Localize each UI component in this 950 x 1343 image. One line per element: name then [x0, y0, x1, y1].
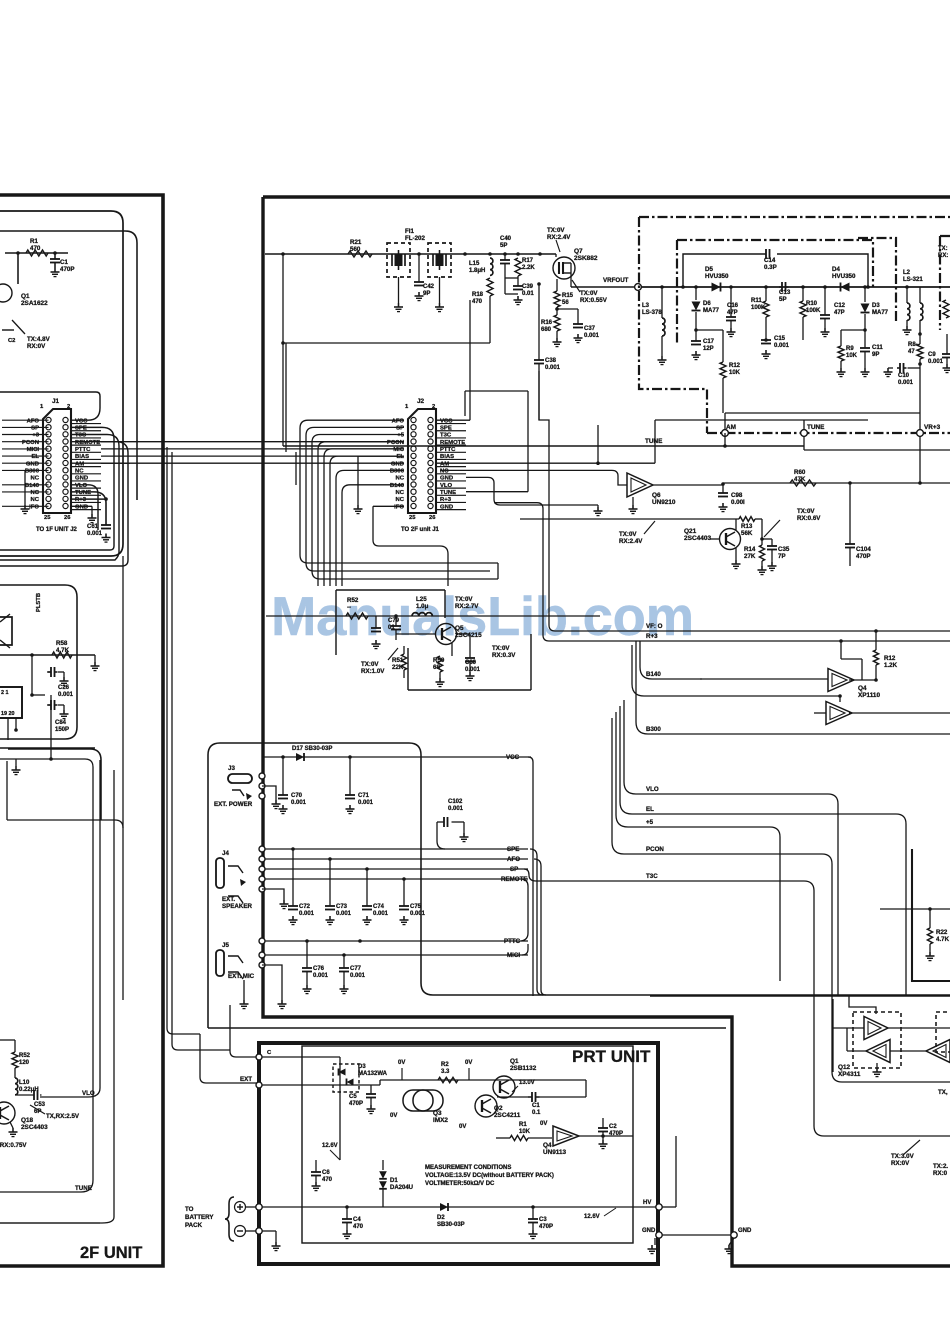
svg-text:XP1110: XP1110	[858, 692, 880, 699]
wire q21 base	[710, 538, 719, 540]
svg-text:120: 120	[19, 1060, 30, 1066]
resistor R15	[556, 279, 558, 291]
svg-text:AFO: AFO	[27, 418, 40, 424]
pin J1 row 9 left	[46, 475, 51, 480]
svg-text:2SC4403: 2SC4403	[684, 535, 711, 542]
svg-text:5P: 5P	[500, 243, 507, 249]
svg-text:1.0μ: 1.0μ	[416, 603, 429, 610]
wire pin underline	[71, 430, 101, 432]
pin J1 row 3 right	[63, 432, 68, 437]
wires J1 right side loops	[0, 392, 100, 420]
svg-text:RX:0.3V: RX:0.3V	[492, 652, 516, 659]
pin J2 row 13 left	[411, 503, 416, 508]
pin J1 row 1 left	[46, 417, 51, 422]
pin J1 row 13 right	[63, 503, 68, 508]
wire long y996	[650, 995, 950, 997]
wire J1 VLO row	[71, 485, 98, 530]
svg-text:Q1: Q1	[510, 1058, 519, 1065]
svg-text:0.001: 0.001	[584, 333, 600, 339]
wire gnd link	[662, 1234, 731, 1236]
svg-text:470: 470	[472, 299, 483, 305]
svg-text:0.001: 0.001	[545, 365, 561, 371]
wire sub box top	[880, 908, 950, 910]
svg-text:L15: L15	[469, 261, 480, 267]
wire J1 AM row to right	[71, 462, 130, 464]
svg-text:560: 560	[350, 246, 361, 253]
ic chip left partial	[0, 687, 22, 718]
svg-text:VOLTAGE:13.5V DC(without BATTE: VOLTAGE:13.5V DC(without BATTERY PACK)	[425, 1173, 554, 1179]
svg-text:RX:2.4V: RX:2.4V	[547, 234, 571, 241]
ground J2 left	[357, 456, 359, 505]
svg-text:47P: 47P	[727, 310, 738, 316]
svg-text:TO 1F UNIT J2: TO 1F UNIT J2	[36, 527, 78, 533]
wire Q5 loop bottom	[408, 689, 531, 691]
svg-text:T3C: T3C	[646, 873, 658, 880]
wire Q5 loop bottom left	[407, 648, 409, 690]
transistor Q3 IMX2	[403, 1090, 433, 1111]
svg-text:2F UNIT: 2F UNIT	[80, 1244, 142, 1262]
wire q5 base	[396, 633, 435, 635]
svg-text:470P: 470P	[349, 1101, 363, 1107]
wire Q5 loop left	[335, 590, 337, 655]
svg-text:RX:1.0V: RX:1.0V	[361, 668, 385, 675]
svg-text:0V: 0V	[398, 1060, 405, 1066]
svg-text:SP: SP	[31, 425, 39, 431]
pin J2 row 2 left	[411, 425, 416, 430]
wire q5 rail	[266, 615, 600, 617]
svg-text:R52: R52	[19, 1053, 31, 1059]
wire ext rail	[262, 1084, 380, 1086]
wire J2 bundle 7	[336, 470, 404, 586]
svg-text:C102: C102	[448, 799, 463, 805]
svg-text:0.001: 0.001	[291, 800, 307, 806]
svg-text:4.7K: 4.7K	[56, 647, 70, 654]
dash-dot RF enclosure outer	[639, 217, 950, 433]
svg-text:R17: R17	[522, 258, 534, 264]
svg-text:2SK882: 2SK882	[574, 255, 598, 262]
wire j2 ifo down	[373, 506, 448, 586]
wire q21 emitter gnd	[735, 548, 737, 560]
svg-text:C80: C80	[465, 660, 477, 666]
svg-text:B300: B300	[390, 468, 405, 474]
wire MICI hook up	[522, 944, 528, 955]
wire gap vertical 1	[167, 447, 200, 1034]
pin J2 row 12 left	[411, 496, 416, 501]
svg-text:C4: C4	[353, 1217, 361, 1223]
svg-text:1.8μH: 1.8μH	[469, 268, 485, 274]
svg-text:C98: C98	[731, 492, 743, 499]
svg-text:VOLTMETER:50kΩ/V DC: VOLTMETER:50kΩ/V DC	[425, 1181, 495, 1187]
svg-text:MA77: MA77	[872, 310, 889, 316]
svg-text:HVU350: HVU350	[705, 273, 729, 280]
wire REMOTE hook down	[521, 879, 528, 941]
wire J2 IFO	[373, 505, 404, 507]
wire J2 bundle 3	[312, 435, 498, 580]
svg-text:TX:0V: TX:0V	[492, 645, 510, 652]
wire J2 bundle 8	[342, 485, 404, 586]
diode D1	[382, 1160, 384, 1170]
wire x123 down	[122, 556, 124, 1000]
svg-text:C79: C79	[388, 618, 400, 624]
wire c26 tap	[31, 655, 33, 695]
svg-text:J5: J5	[222, 942, 229, 949]
svg-text:NC: NC	[30, 490, 39, 496]
node GND left	[656, 1232, 662, 1238]
pin J2 row 8 right	[428, 468, 433, 473]
svg-text:R12: R12	[729, 363, 741, 369]
svg-text:470: 470	[30, 245, 41, 252]
wires J1 left stubs	[2, 419, 49, 421]
pin J1 row 6 left	[46, 453, 51, 458]
pin J1 row 5 right	[63, 446, 68, 451]
wire gap vertical 2	[172, 452, 230, 1050]
svg-text:L3: L3	[642, 303, 650, 309]
svg-text:TX:4.8V: TX:4.8V	[27, 336, 51, 343]
buffer Q4b	[826, 702, 852, 725]
svg-text:D6: D6	[703, 301, 711, 307]
svg-text:--: --	[347, 604, 351, 611]
node GND right	[731, 1232, 737, 1238]
svg-text:C84: C84	[55, 720, 67, 726]
svg-text:0V: 0V	[465, 1060, 472, 1066]
wire pin underline	[436, 501, 466, 503]
capacitor C61	[105, 499, 107, 525]
svg-text:0.3P: 0.3P	[764, 264, 777, 271]
pin J2 row 6 left	[411, 453, 416, 458]
pin J1 row 8 right	[63, 468, 68, 473]
wire r+3 jog to q4a out	[839, 639, 843, 643]
svg-text:TO: TO	[185, 1206, 194, 1213]
wire J2 right verticals up	[464, 391, 466, 416]
svg-text:R22: R22	[936, 929, 948, 936]
svg-text:NC: NC	[395, 497, 404, 503]
svg-text:B300: B300	[25, 468, 40, 474]
wire pin underline	[436, 487, 466, 489]
capacitor C104	[849, 483, 851, 544]
node VR+3	[917, 430, 924, 437]
svg-text:Q4: Q4	[858, 685, 867, 692]
wire mid box bottom	[7, 820, 123, 828]
pin J2 row 7 left	[411, 460, 416, 465]
svg-text:C3: C3	[539, 1217, 547, 1223]
svg-text:NC: NC	[30, 476, 39, 482]
wire Q5 loop top	[336, 589, 445, 591]
brace battery	[225, 1197, 234, 1241]
wire x114 down	[113, 770, 115, 1217]
svg-text:0.001: 0.001	[898, 380, 914, 386]
wire q21 collector up	[735, 519, 737, 530]
capacitor C77	[342, 953, 346, 957]
svg-text:RX:0.55V: RX:0.55V	[580, 297, 608, 304]
capacitor C80	[469, 650, 471, 658]
pin J2 row 10 right	[428, 482, 433, 487]
transistor Q2 prt	[475, 1095, 497, 1117]
capacitor C37	[555, 307, 559, 311]
wire battery minus	[246, 1230, 256, 1232]
wire d6 c17 tap	[694, 328, 698, 332]
capacitor C3	[532, 1207, 534, 1219]
capacitor C1	[53, 251, 57, 255]
svg-text:AFO: AFO	[392, 418, 405, 424]
wire q4a out	[849, 679, 876, 681]
wire R13 line	[520, 518, 739, 520]
node HV	[656, 1204, 662, 1210]
svg-text:12.6V: 12.6V	[322, 1143, 338, 1149]
svg-text:SPE: SPE	[507, 846, 519, 853]
right sub box	[912, 849, 950, 981]
svg-text:C73: C73	[336, 904, 348, 910]
svg-text:0.00I: 0.00I	[731, 499, 745, 506]
buffer Q4 prt	[553, 1126, 579, 1146]
svg-text:C104: C104	[856, 546, 871, 553]
svg-text:100K: 100K	[806, 308, 821, 314]
svg-text:TUNE: TUNE	[75, 1185, 92, 1192]
pin J1 row 12 right	[63, 496, 68, 501]
wire J2 bundle 4	[318, 442, 404, 586]
svg-text:C1: C1	[60, 259, 68, 266]
svg-text:J2: J2	[417, 398, 425, 405]
svg-text:C61: C61	[87, 524, 99, 530]
wire r13 corner	[755, 518, 762, 520]
ground Q18	[10, 1122, 13, 1128]
wire box corner lower	[8, 749, 101, 820]
ground j5 left	[243, 980, 245, 1000]
wire main rail top	[265, 253, 556, 255]
pin J1 row 4 right	[63, 439, 68, 444]
capacitor C38	[538, 284, 540, 360]
svg-text:C11: C11	[872, 345, 883, 351]
resistor R58	[52, 652, 72, 658]
node EXT prt	[256, 1082, 262, 1088]
svg-text:TUNE: TUNE	[807, 424, 825, 431]
capacitor C42	[417, 252, 421, 256]
svg-text:SP: SP	[396, 425, 404, 431]
ground y759	[15, 759, 17, 766]
transistor Q1 body	[0, 284, 12, 302]
svg-text:0.001: 0.001	[410, 911, 426, 917]
wire prt top rail	[379, 1080, 381, 1085]
wire bundle loop right edge	[497, 563, 499, 579]
svg-text:4.7K: 4.7K	[936, 936, 950, 943]
svg-text:PRT UNIT: PRT UNIT	[572, 1047, 651, 1066]
pin J2 row 9 left	[411, 475, 416, 480]
wire R+3 feed from J2	[494, 503, 950, 641]
inductor L1 partial	[919, 287, 921, 303]
svg-text:EL: EL	[31, 454, 39, 460]
pin J2 row 11 left	[411, 489, 416, 494]
svg-text:C42: C42	[423, 284, 435, 290]
pin J1 row 2 left	[46, 425, 51, 430]
wire J1 R+3 row	[71, 498, 106, 500]
wire chip to down	[7, 718, 9, 740]
svg-text:L10: L10	[19, 1080, 30, 1086]
pin J1 row 6 right	[63, 453, 68, 458]
wire r60 rail	[723, 482, 950, 484]
svg-text:C72: C72	[299, 904, 311, 910]
svg-text:0.001: 0.001	[928, 359, 944, 365]
wire gap crossing 2	[101, 448, 404, 450]
svg-text:C5: C5	[349, 1094, 357, 1100]
svg-text:EL: EL	[646, 806, 654, 813]
svg-text:IMX2: IMX2	[433, 1117, 448, 1124]
wire down from c84 area	[50, 695, 52, 760]
wire mid horizontal lower	[0, 747, 95, 749]
wire c rail	[262, 1056, 340, 1058]
wire vcc turn down	[528, 757, 533, 996]
resistor R12 xp	[875, 631, 877, 650]
svg-text:13.0V: 13.0V	[519, 1080, 535, 1086]
resistor R1	[26, 250, 48, 256]
resistor R21	[348, 251, 372, 257]
transistor Q5	[436, 624, 457, 645]
svg-text:J4: J4	[222, 850, 229, 857]
wire x296 feed	[295, 452, 297, 485]
wire pin underline	[436, 509, 466, 511]
pin J2 row 13 right	[428, 503, 433, 508]
wire j5 gnd	[262, 965, 282, 985]
svg-text:R1: R1	[519, 1122, 527, 1128]
thin jacks box	[208, 743, 950, 995]
wire REMOTE line	[259, 876, 265, 882]
capacitor C6	[315, 1160, 317, 1172]
svg-text:0.1: 0.1	[532, 1110, 541, 1116]
svg-text:EXT.: EXT.	[222, 896, 235, 903]
svg-text:GND: GND	[391, 461, 404, 467]
svg-text:Q7: Q7	[574, 248, 583, 255]
svg-text:EXT: EXT	[240, 1076, 252, 1083]
wire arrow diag	[903, 1140, 920, 1155]
svg-text:C39: C39	[522, 284, 534, 290]
svg-text:PTTC: PTTC	[504, 938, 521, 945]
wire AFO hook down	[534, 859, 546, 995]
wire gap crossing 3	[101, 455, 404, 457]
svg-text:0.001: 0.001	[299, 911, 315, 917]
wire q6 input line	[440, 470, 627, 485]
wire hv up	[662, 1206, 676, 1208]
wire pin underline	[71, 480, 101, 482]
svg-text:MIC: MIC	[393, 447, 405, 453]
svg-text:J1: J1	[52, 398, 60, 405]
wire SPE line	[259, 846, 265, 852]
svg-text:Q2: Q2	[494, 1105, 503, 1112]
svg-text:VR+3: VR+3	[924, 424, 941, 431]
svg-text:470: 470	[322, 1177, 333, 1183]
svg-text:27K: 27K	[744, 553, 756, 560]
capacitor C73	[328, 857, 332, 861]
svg-text:47P: 47P	[834, 310, 845, 316]
svg-text:EXT. POWER: EXT. POWER	[214, 801, 253, 808]
transistor Q7 2SK882	[553, 257, 575, 279]
wire MICI line	[259, 952, 265, 958]
svg-text:9P: 9P	[872, 352, 879, 358]
wire HV rail	[262, 1206, 656, 1208]
svg-text:0V: 0V	[459, 1124, 466, 1130]
wire PCON net	[612, 718, 950, 1082]
svg-text:D1: D1	[390, 1178, 398, 1184]
svg-text:PCON: PCON	[22, 440, 39, 446]
svg-text:D2: D2	[437, 1215, 445, 1221]
capacitor C84	[32, 694, 45, 696]
svg-text:C15: C15	[774, 336, 786, 342]
svg-text:VCC: VCC	[506, 754, 520, 761]
dash-dot RF enclosure right segments	[858, 238, 896, 322]
svg-text:R15: R15	[562, 293, 574, 299]
wire pin underline	[71, 473, 101, 475]
pin J2 row 3 left	[411, 432, 416, 437]
svg-text:R9: R9	[846, 346, 854, 352]
wire J2 bundle 6	[330, 456, 404, 586]
wire +5 net	[616, 712, 780, 981]
capacitor C53	[33, 1094, 35, 1096]
svg-text:RX:0V: RX:0V	[891, 1160, 910, 1167]
pin J2 row 11 right	[428, 489, 433, 494]
inner thin box mid-left	[0, 585, 77, 739]
pin J1 row 7 left	[46, 460, 51, 465]
wire D17 rail VCC	[262, 756, 531, 758]
wire RF main rail	[641, 286, 950, 288]
svg-text:RX:0V: RX:0V	[27, 343, 46, 350]
wire x286 feed	[285, 343, 287, 452]
svg-text:L25: L25	[416, 596, 427, 603]
pin J2 row 1 right	[428, 417, 433, 422]
wire SP to T3C	[524, 869, 950, 1136]
inductor L10	[15, 1078, 18, 1095]
resistor R16	[556, 307, 558, 315]
svg-text:VF: O: VF: O	[646, 623, 663, 630]
wire R1 drop	[16, 251, 20, 255]
svg-text:TUNE: TUNE	[645, 438, 663, 445]
svg-text:B300: B300	[646, 726, 661, 733]
wire pin underline	[436, 423, 466, 425]
node TUNE	[801, 430, 808, 437]
svg-text:Q5: Q5	[455, 625, 464, 632]
minus terminal	[235, 1226, 246, 1237]
svg-text:2: 2	[432, 404, 435, 410]
svg-text:C77: C77	[350, 966, 362, 972]
svg-text:TX:0V: TX:0V	[547, 227, 565, 234]
capacitor C74	[365, 867, 369, 871]
wire x283 down	[282, 343, 284, 446]
wire L15 bottom join	[505, 277, 518, 279]
svg-text:TX:2.: TX:2.	[933, 1163, 948, 1170]
svg-text:TO 2F unit J1: TO 2F unit J1	[401, 527, 440, 533]
svg-text:10K: 10K	[846, 353, 858, 359]
wire Q7 gate	[555, 254, 557, 257]
svg-text:Q18: Q18	[21, 1117, 34, 1124]
wire arrow q21	[644, 521, 655, 534]
node C prt	[256, 1054, 262, 1060]
svg-text:Q12: Q12	[838, 1064, 851, 1071]
wire VLO lower	[15, 1094, 34, 1096]
svg-text:C9: C9	[928, 352, 936, 358]
wire pin underline	[71, 444, 101, 446]
pin J1 row 10 left	[46, 482, 51, 487]
svg-text:HV: HV	[643, 1200, 651, 1206]
capacitor C35	[762, 538, 772, 540]
wire TUNE long	[283, 445, 804, 447]
svg-text:R10: R10	[806, 301, 818, 307]
ground J1 B300 pin	[24, 470, 26, 505]
svg-text:EXT. MIC: EXT. MIC	[228, 973, 255, 980]
svg-text:RX:0.6V: RX:0.6V	[797, 515, 821, 522]
svg-text:2.2K: 2.2K	[522, 265, 535, 271]
svg-text:01: 01	[388, 625, 395, 631]
wire pin underline	[436, 458, 466, 460]
svg-text:C2: C2	[609, 1124, 617, 1130]
diode D3 prt	[339, 1069, 346, 1076]
node battery minus	[256, 1228, 262, 1234]
pin J2 row 6 right	[428, 453, 433, 458]
